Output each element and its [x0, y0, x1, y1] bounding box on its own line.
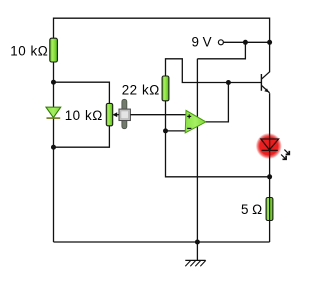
wire 22k top to base line	[166, 59, 262, 83]
wire feedback down and right to LED node	[166, 131, 270, 177]
wire 9V supply to op-amp V+	[197, 42, 245, 59]
resistor R1 10 kOhm (top left, vertical)	[50, 38, 58, 62]
LED glow	[256, 133, 282, 159]
junction node E (LED / 5 Ohm)	[267, 174, 272, 179]
pot knob box	[119, 109, 130, 120]
junction node B	[51, 145, 56, 150]
wire collector up	[269, 42, 271, 72]
wire 5 Ohm to bottom rail	[269, 177, 271, 242]
resistor R4 5 Ohm (vertical)	[266, 198, 273, 221]
ground	[185, 242, 206, 266]
op-amp U1	[185, 110, 206, 132]
wire 22k bottom to inverting input node	[165, 101, 167, 131]
wire emitter down through LED	[269, 93, 271, 177]
LED light arrows	[281, 150, 289, 160]
wire bottom rail	[54, 241, 270, 243]
resistor R3 22 kOhm (vertical)	[162, 76, 169, 101]
svg-text:5 Ω: 5 Ω	[241, 202, 262, 217]
diode D1 (green, pointing down)	[46, 107, 61, 118]
junction node C (base drive)	[226, 80, 231, 85]
terminal 9V (open circle)	[218, 40, 223, 45]
junction node A	[51, 80, 56, 85]
wire top rail	[54, 18, 270, 242]
svg-text:22 kΩ: 22 kΩ	[122, 83, 160, 98]
pot knob shaft	[122, 99, 127, 128]
junction node D (inverting input)	[163, 128, 168, 133]
junction node F (9V supply tap)	[243, 40, 248, 45]
wire pot branch bottom	[54, 126, 110, 148]
wire 9V to collector rail	[223, 41, 269, 43]
junction node H (ground tap)	[195, 240, 200, 245]
wire op-amp supply vertical	[196, 59, 198, 242]
wire inverting input	[166, 130, 186, 132]
wire pot wiper to op-amp + input	[130, 114, 185, 116]
wire pot branch top	[54, 82, 110, 103]
svg-text:10 kΩ: 10 kΩ	[65, 108, 103, 123]
potentiometer R2 10 kOhm (vertical resistor body)	[106, 103, 112, 125]
pot wiper arrow	[113, 112, 120, 117]
svg-text:9 V: 9 V	[192, 35, 212, 50]
LED symbol	[261, 139, 279, 150]
wire op-amp output up to base node	[206, 83, 229, 122]
junction node G (top right)	[267, 40, 272, 45]
transistor Q1 (NPN)	[261, 72, 269, 93]
svg-text:10 kΩ: 10 kΩ	[10, 44, 48, 59]
